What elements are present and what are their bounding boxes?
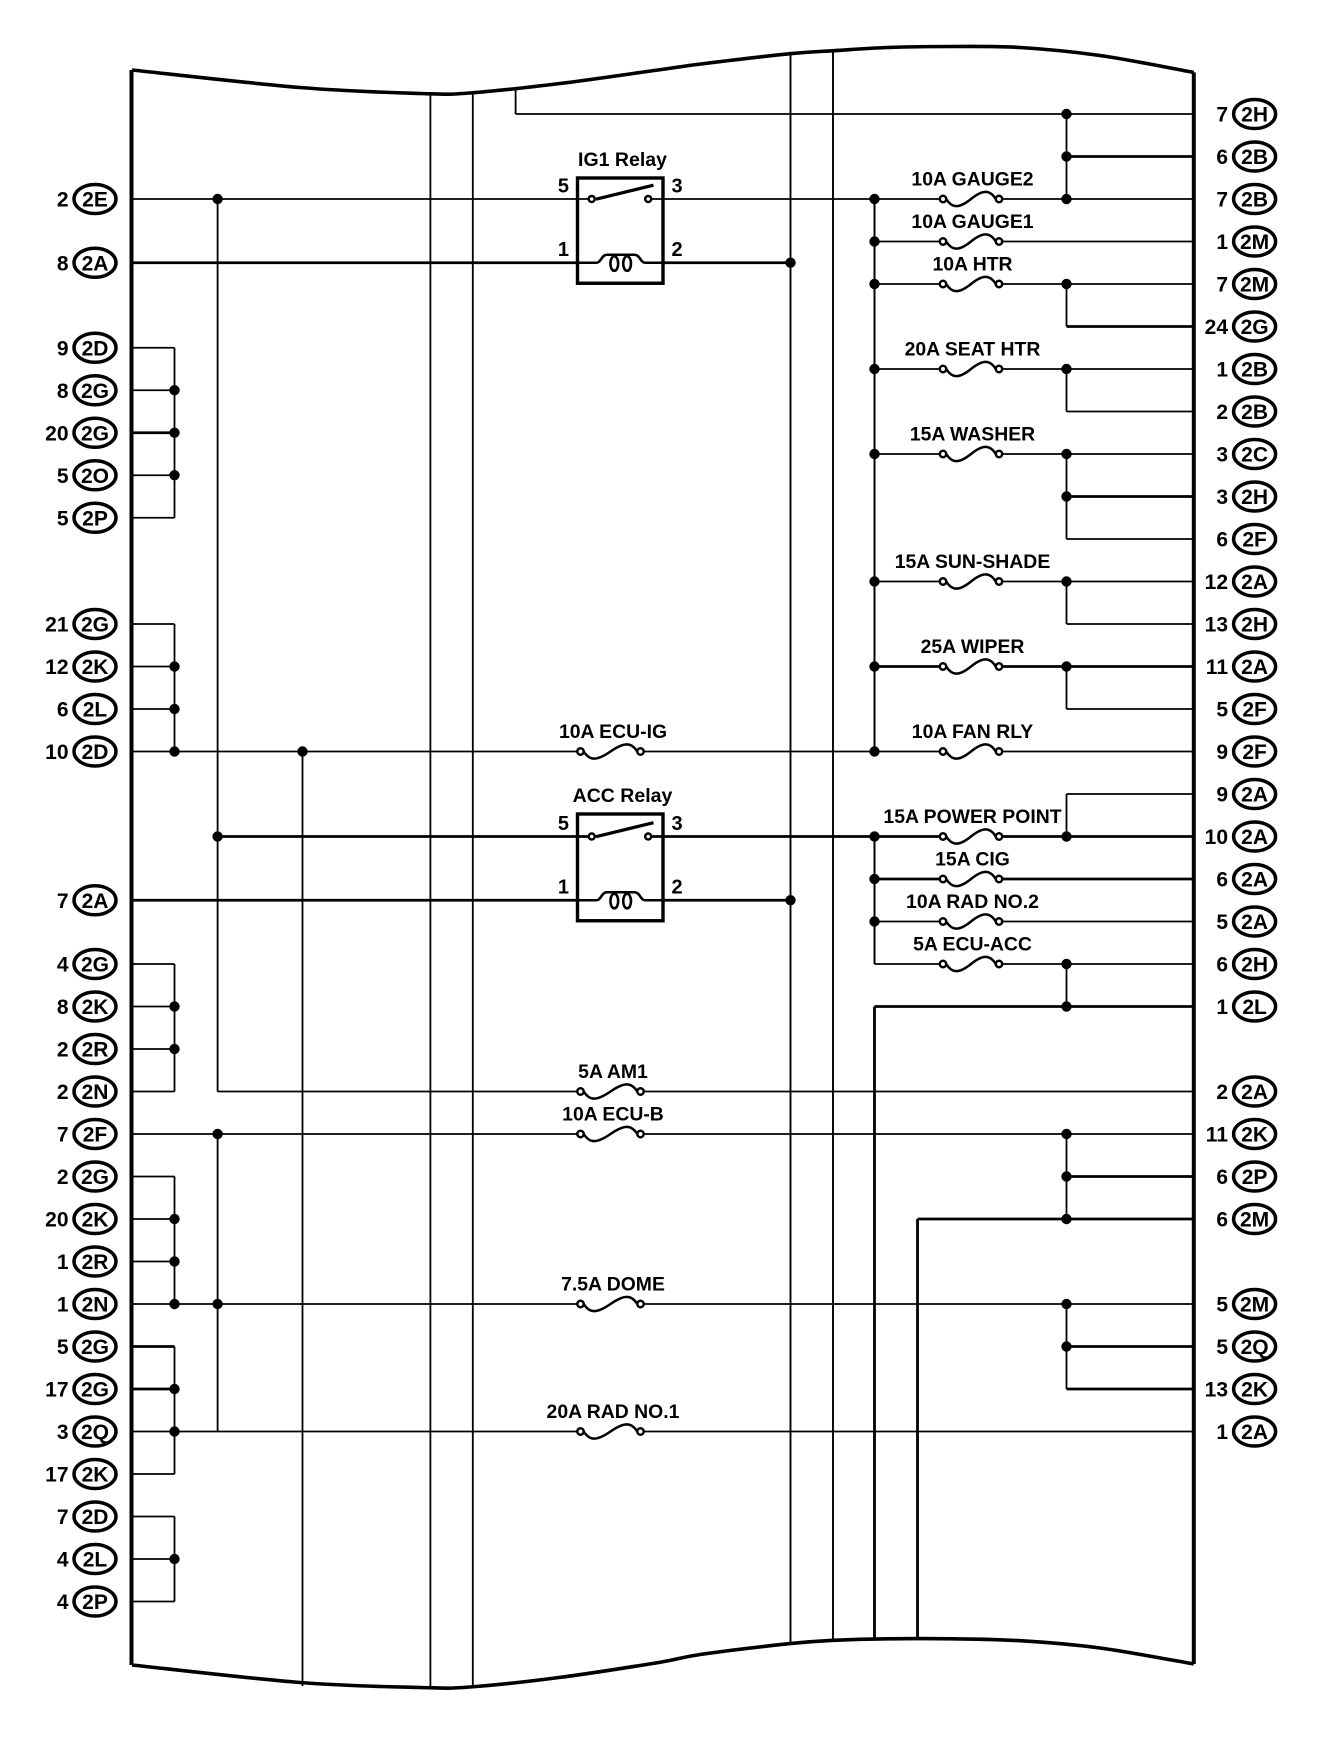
svg-text:3: 3 (1216, 444, 1228, 467)
svg-text:7: 7 (1216, 274, 1228, 297)
svg-text:1: 1 (1216, 359, 1228, 382)
stub 20(2K) (132, 1218, 175, 1220)
branch vertical 5(2M)-5(2Q)-13(2K) (1066, 1304, 1068, 1389)
connector 5(2P) L (57, 503, 116, 532)
svg-text:7: 7 (1216, 104, 1228, 127)
svg-text:6: 6 (1216, 1209, 1228, 1232)
connector 13(2K) R (1205, 1375, 1276, 1404)
svg-text:7: 7 (57, 1124, 69, 1147)
connector 21(2G) L (45, 610, 116, 639)
junction dot 6(2H) row junction (1061, 959, 1071, 969)
svg-text:2G: 2G (81, 614, 109, 637)
junction dot IG1 coil output junction (785, 258, 795, 268)
svg-text:5: 5 (57, 465, 69, 488)
svg-text:5: 5 (558, 176, 569, 198)
wire row 6(2F) (1067, 538, 1194, 540)
connector 9(2F) R (1216, 737, 1275, 766)
junction dot FAN RLY feed junction (869, 746, 879, 756)
junction dot 11(2A) row junction (1061, 661, 1071, 671)
svg-text:2L: 2L (83, 699, 108, 722)
connector 6(2L) L (57, 695, 116, 724)
svg-text:2H: 2H (1241, 614, 1268, 637)
top torn-edge wavy border (132, 46, 1194, 94)
fuse 25A WIPER (921, 636, 1025, 674)
svg-text:10A FAN RLY: 10A FAN RLY (912, 721, 1033, 743)
svg-text:8: 8 (57, 252, 69, 275)
junction dot 3(2C) row junction (1061, 449, 1071, 459)
connector 5(2Q) R (1216, 1332, 1275, 1361)
branch vertical 12(2A)-13(2H) (1066, 582, 1068, 625)
svg-text:2K: 2K (82, 996, 109, 1019)
svg-text:2L: 2L (83, 1549, 108, 1572)
junction dot 2(2R) bracket junction (169, 1044, 179, 1054)
wire row ECU-ACC fuse to 6(2H) (875, 963, 940, 965)
svg-text:17: 17 (45, 1379, 68, 1402)
svg-text:2D: 2D (82, 1506, 109, 1529)
svg-text:2G: 2G (81, 1336, 109, 1359)
connector 7(2F) L (57, 1120, 116, 1149)
junction dot 20(2K) bracket junction (169, 1214, 179, 1224)
svg-text:2B: 2B (1241, 401, 1268, 424)
svg-text:2O: 2O (81, 465, 109, 488)
svg-text:2Q: 2Q (81, 1421, 109, 1444)
junction dot SUN-SHADE feed junction (869, 576, 879, 586)
svg-text:17: 17 (45, 1464, 68, 1487)
connector 12(2A) R (1205, 567, 1276, 596)
svg-text:2G: 2G (81, 954, 109, 977)
bracket group 2D/2G/2G/2O/2P vertical (174, 348, 176, 518)
junction dot WASHER feed junction (869, 449, 879, 459)
stub 4(2P) (132, 1601, 175, 1603)
wire row 13(2K) heavy (1067, 1388, 1194, 1391)
junction dot 6(2M) row junction (1061, 1214, 1071, 1224)
junction dot 5(2Q) row junction (1061, 1341, 1071, 1351)
connector 6(2H) R (1216, 950, 1275, 979)
junction dot 8(2G) bracket junction (169, 385, 179, 395)
connector 13(2H) R (1205, 610, 1276, 639)
wire FAN RLY fuse output to 9(2F) (1002, 751, 1194, 753)
bracket group 2G/2K/2L/2D vertical (174, 624, 176, 752)
connector 20(2K) L (45, 1205, 116, 1234)
connector 6(2B) R (1216, 142, 1275, 171)
svg-text:2: 2 (57, 1039, 69, 1062)
junction dot 12(2K) bracket junction (169, 661, 179, 671)
IG1 fuse supply bus vertical (874, 199, 876, 752)
svg-text:2K: 2K (82, 1464, 109, 1487)
connector 7(2D) L (57, 1502, 116, 1531)
connector 7(2B) R (1216, 185, 1275, 214)
stub 9(2D) (132, 347, 175, 349)
stub 4(2L) (132, 1558, 175, 1560)
connector 2(2E) L (57, 185, 116, 214)
stub 21(2G) (132, 623, 175, 625)
connector 11(2A) R (1206, 652, 1276, 681)
junction dot 6(2P) row junction (1061, 1171, 1071, 1181)
stub 1(2R) (132, 1261, 175, 1263)
svg-text:9: 9 (1216, 741, 1228, 764)
junction dot IG1 bus top junction (869, 194, 879, 204)
svg-text:5: 5 (1216, 911, 1228, 934)
svg-text:10A ECU-B: 10A ECU-B (562, 1104, 664, 1126)
bracket group 2G/2G/2Q/2K vertical (174, 1347, 176, 1475)
junction dot 20(2G) bracket junction (169, 428, 179, 438)
connector 24(2G) R (1205, 312, 1276, 341)
fuse 10A ECU-IG (559, 721, 667, 759)
svg-text:2M: 2M (1240, 231, 1269, 254)
fuse 10A HTR (932, 254, 1012, 292)
junction dot 5(2M) row junction (1061, 1299, 1071, 1309)
wire IG1 relay pin 3 to GAUGE2 fuse (651, 198, 940, 200)
stub 4(2G) (132, 963, 175, 965)
connector 2(2R) L (57, 1035, 116, 1064)
wire row 6(2M) heavy (918, 1218, 1194, 1221)
junction dot ACC relay feed junction (212, 831, 222, 841)
bracket group 2G/2K/2R/2N lower vertical (174, 1177, 176, 1305)
ACC fuse supply bus vertical (874, 837, 876, 965)
svg-text:3: 3 (672, 813, 683, 835)
connector 4(2P) L (57, 1587, 116, 1616)
connector 2(2A) R (1216, 1077, 1275, 1106)
svg-text:6: 6 (1216, 529, 1228, 552)
connector 5(2O) L (57, 461, 116, 490)
junction dot 11(2K) row junction (1061, 1129, 1071, 1139)
stub 5(2G) heavy (132, 1345, 175, 1348)
wire POWER POINT fuse output to 10(2A) heavy (1002, 835, 1194, 838)
connector 20(2G) L (45, 418, 116, 447)
svg-text:2: 2 (672, 876, 683, 898)
connector 17(2G) L (45, 1375, 116, 1404)
wire ACC relay coil pin 2 to bus junction heavy (663, 899, 791, 902)
connector 2(2G) L (57, 1162, 116, 1191)
connector 3(2H) R (1216, 482, 1275, 511)
svg-text:20: 20 (45, 422, 68, 445)
wire IG1 relay coil pin 2 to bus junction heavy (663, 261, 791, 264)
connector 2(2B) R (1216, 397, 1275, 426)
svg-text:2G: 2G (81, 380, 109, 403)
junction dot 12(2A) row junction (1061, 576, 1071, 586)
stub 7(2D) (132, 1516, 175, 1518)
wire row 10(2D) to ECU-IG fuse (132, 751, 578, 753)
svg-text:2G: 2G (81, 1379, 109, 1402)
svg-text:2N: 2N (82, 1081, 109, 1104)
svg-text:15A WASHER: 15A WASHER (910, 424, 1035, 446)
junction dot 1(2R) bracket junction (169, 1256, 179, 1266)
heavy vertical from 1(2L) row down to bottom edge (873, 1007, 876, 1640)
svg-text:10: 10 (45, 741, 68, 764)
svg-text:5A ECU-ACC: 5A ECU-ACC (913, 934, 1032, 956)
svg-text:ACC Relay: ACC Relay (573, 785, 673, 807)
bottom torn-edge wavy border (132, 1639, 1194, 1689)
vertical stub from top edge to 7(2H) row (515, 89, 517, 114)
svg-text:7: 7 (57, 1506, 69, 1529)
svg-text:7: 7 (1216, 189, 1228, 212)
wire row ACC relay pin 5 feed heavy (218, 835, 589, 838)
wire row GAUGE1 fuse to 1(2M) (875, 241, 940, 243)
bracket group 2D/2L/2P vertical (174, 1517, 176, 1602)
connector 5(2G) L (57, 1332, 116, 1361)
fuse 15A POWER POINT (883, 806, 1061, 844)
junction dot 8(2K) bracket junction (169, 1001, 179, 1011)
wire GAUGE2 fuse output to 7(2B) (1002, 198, 1194, 200)
stub 12(2K) (132, 666, 175, 668)
wire row RAD NO.2 fuse to 5(2A) (875, 921, 940, 923)
svg-text:2R: 2R (82, 1251, 109, 1274)
svg-text:2M: 2M (1240, 1294, 1269, 1317)
junction dot 1(2N) bracket junction (169, 1299, 179, 1309)
connector 4(2L) L (57, 1545, 116, 1574)
junction dot ACC coil output junction (785, 895, 795, 905)
svg-text:2F: 2F (1242, 699, 1267, 722)
svg-text:7: 7 (57, 890, 69, 913)
svg-text:2: 2 (672, 239, 683, 261)
connector 2(2N) L (57, 1077, 116, 1106)
svg-text:3: 3 (1216, 486, 1228, 509)
wire DOME fuse output to 5(2M) (644, 1303, 1194, 1305)
relay IG1 Relay (558, 149, 683, 283)
svg-text:2G: 2G (1241, 316, 1269, 339)
svg-text:11: 11 (1206, 1124, 1229, 1147)
svg-text:2K: 2K (82, 656, 109, 679)
svg-text:2A: 2A (1241, 1081, 1268, 1104)
svg-text:1: 1 (558, 876, 569, 898)
svg-text:2H: 2H (1241, 486, 1268, 509)
wire row 6(2B) heavy (1067, 155, 1194, 158)
connector 5(2A) R (1216, 907, 1275, 936)
branch vertical 3(2C)-3(2H)-6(2F) (1066, 454, 1068, 539)
junction dot WIPER feed junction (869, 661, 879, 671)
svg-text:2A: 2A (1241, 656, 1268, 679)
junction dot 1(2L) row junction (1061, 1001, 1071, 1011)
junction dot SEAT HTR feed junction (869, 364, 879, 374)
svg-text:5: 5 (1216, 1336, 1228, 1359)
branch vertical 1(2B)-2(2B) (1066, 369, 1068, 412)
svg-text:20: 20 (45, 1209, 68, 1232)
svg-text:2A: 2A (1241, 911, 1268, 934)
stub 5(2O) (132, 474, 175, 476)
svg-text:15A POWER POINT: 15A POWER POINT (883, 806, 1061, 828)
svg-text:2A: 2A (1241, 1421, 1268, 1444)
svg-text:2: 2 (1216, 401, 1228, 424)
svg-text:13: 13 (1205, 1379, 1228, 1402)
junction dot DOME row junction (212, 1299, 222, 1309)
junction dot 1(2B) row junction (1061, 364, 1071, 374)
connector 5(2M) R (1216, 1290, 1275, 1319)
svg-text:2Q: 2Q (1241, 1336, 1269, 1359)
svg-text:2P: 2P (82, 1591, 108, 1614)
fuse 15A SUN-SHADE (895, 551, 1051, 589)
svg-text:1: 1 (57, 1294, 69, 1317)
vertical bus wire from 2E junction down to AM1 row (217, 199, 219, 1092)
svg-text:8: 8 (57, 380, 69, 403)
fuse 10A RAD NO.2 (906, 891, 1039, 929)
wire row 7(2F) to ECU-B fuse (132, 1133, 578, 1135)
wire ECU-B fuse output to 11(2K) (644, 1133, 1194, 1135)
wire row 7(2A) to ACC relay coil pin 1 heavy (132, 899, 578, 902)
connector 9(2A) R (1216, 780, 1275, 809)
svg-text:2R: 2R (82, 1039, 109, 1062)
svg-text:2N: 2N (82, 1294, 109, 1317)
svg-text:2E: 2E (82, 189, 108, 212)
wire row 2(2B) (1067, 411, 1194, 413)
stub 20(2G) heavy (132, 431, 175, 434)
stub 2(2N) (132, 1091, 175, 1093)
left border line (130, 70, 134, 1665)
wire row 8(2A) to IG1 relay coil pin 1 heavy (132, 261, 578, 264)
connector 6(2A) R (1216, 865, 1275, 894)
svg-text:10A GAUGE2: 10A GAUGE2 (911, 169, 1033, 191)
svg-text:12: 12 (45, 656, 68, 679)
fuse 15A CIG (935, 849, 1010, 887)
wire row SUN-SHADE fuse to 12(2A) (875, 581, 940, 583)
svg-text:8: 8 (57, 996, 69, 1019)
fuse 10A FAN RLY (912, 721, 1033, 759)
svg-text:7.5A DOME: 7.5A DOME (561, 1274, 665, 1296)
svg-text:5: 5 (57, 507, 69, 530)
svg-text:2F: 2F (1242, 529, 1267, 552)
svg-text:2M: 2M (1240, 274, 1269, 297)
svg-text:2L: 2L (1242, 996, 1267, 1019)
svg-text:2K: 2K (1241, 1124, 1268, 1147)
svg-text:2A: 2A (1241, 826, 1268, 849)
branch vertical 7(2H)-6(2B)-7(2B) (1066, 114, 1068, 199)
connector 1(2M) R (1216, 227, 1275, 256)
fuse 5A ECU-ACC (913, 934, 1032, 972)
svg-text:2C: 2C (1241, 444, 1268, 467)
connector 1(2R) L (57, 1247, 116, 1276)
heavy vertical from 6(2M) row down to bottom edge (916, 1219, 919, 1639)
wire row 9(2A) (1067, 793, 1194, 795)
stub 17(2G) heavy (132, 1388, 175, 1391)
svg-text:1: 1 (558, 239, 569, 261)
svg-text:2: 2 (57, 1166, 69, 1189)
svg-text:2P: 2P (82, 507, 108, 530)
right border line (1192, 72, 1196, 1664)
connector 8(2K) L (57, 992, 116, 1021)
junction dot 10(2A) row junction (1061, 831, 1071, 841)
svg-text:13: 13 (1205, 614, 1228, 637)
svg-text:10A HTR: 10A HTR (932, 254, 1012, 276)
wire row SEAT HTR fuse to 1(2B) (875, 368, 940, 370)
svg-text:6: 6 (1216, 869, 1228, 892)
connector 6(2M) R (1216, 1205, 1275, 1234)
fuse 7.5A DOME (561, 1274, 665, 1312)
fuse 10A GAUGE1 (911, 211, 1033, 249)
svg-text:2A: 2A (1241, 571, 1268, 594)
svg-text:2H: 2H (1241, 104, 1268, 127)
junction dot ECU-B row junction (212, 1129, 222, 1139)
svg-text:2G: 2G (81, 1166, 109, 1189)
branch vertical 6(2H)-1(2L) (1066, 964, 1068, 1007)
svg-text:4: 4 (57, 1549, 69, 1572)
svg-text:15A SUN-SHADE: 15A SUN-SHADE (895, 551, 1051, 573)
junction dot 17(2G) bracket junction (169, 1384, 179, 1394)
wire row 1(2N) to DOME fuse (175, 1303, 578, 1305)
wire ACC relay pin 3 to POWER POINT fuse heavy (651, 835, 940, 838)
wire row CIG fuse to 6(2A) heavy (875, 878, 940, 881)
svg-text:20A RAD NO.1: 20A RAD NO.1 (547, 1401, 680, 1423)
svg-text:2B: 2B (1241, 189, 1268, 212)
svg-text:3: 3 (672, 176, 683, 198)
connector 4(2G) L (57, 950, 116, 979)
stub 17(2K) (132, 1473, 175, 1475)
svg-text:2: 2 (57, 1081, 69, 1104)
junction dot 2(2E) row junction (212, 194, 222, 204)
junction dot 7(2M) row junction (1061, 279, 1071, 289)
svg-text:2A: 2A (1241, 869, 1268, 892)
junction dot 7(2H) row junction (1061, 109, 1071, 119)
svg-text:21: 21 (45, 614, 69, 637)
connector 12(2K) L (45, 652, 116, 681)
connector 1(2B) R (1216, 355, 1275, 384)
wire row 24(2G) heavy (1067, 325, 1194, 328)
branch vertical 11(2A)-5(2F) (1066, 667, 1068, 710)
svg-text:10A RAD NO.2: 10A RAD NO.2 (906, 891, 1039, 913)
vertical pass-through bus wire B (472, 93, 474, 1687)
svg-text:5: 5 (1216, 699, 1228, 722)
svg-text:6: 6 (1216, 1166, 1228, 1189)
svg-text:1: 1 (57, 1251, 69, 1274)
connector 1(2N) L (57, 1290, 116, 1319)
svg-text:5A AM1: 5A AM1 (578, 1061, 648, 1083)
svg-text:15A CIG: 15A CIG (935, 849, 1010, 871)
connector 3(2C) R (1216, 440, 1275, 469)
svg-text:2: 2 (1216, 1081, 1228, 1104)
wire row 6(2P) heavy (1067, 1175, 1194, 1178)
wire ECU-IG fuse output to FAN RLY fuse (644, 751, 940, 753)
connector 1(2L) R (1216, 992, 1275, 1021)
junction dot RAD NO.2 feed junction (869, 916, 879, 926)
svg-text:9: 9 (57, 337, 69, 360)
svg-text:2D: 2D (82, 741, 109, 764)
branch vertical 9(2A)-10(2A) (1066, 794, 1068, 837)
fuse 5A AM1 (577, 1061, 648, 1099)
svg-text:6: 6 (1216, 954, 1228, 977)
svg-text:5: 5 (57, 1336, 69, 1359)
svg-text:6: 6 (57, 699, 69, 722)
relay ACC Relay (558, 785, 683, 921)
junction dot 7(2B) row junction (1061, 194, 1071, 204)
junction dot ACC bus top junction (869, 831, 879, 841)
junction dot 5(2O) bracket junction (169, 470, 179, 480)
vertical pass-through bus wire C (790, 54, 792, 1644)
fuse 15A WASHER (910, 424, 1035, 462)
junction dot 10(2D) bracket junction (169, 746, 179, 756)
wire RAD NO.1 fuse output to 1(2A) (644, 1431, 1194, 1433)
svg-text:9: 9 (1216, 784, 1228, 807)
vertical bus wire from ECU-IG row down to bottom edge (302, 752, 304, 1687)
connector 6(2P) R (1216, 1162, 1275, 1191)
connector 10(2A) R (1205, 822, 1276, 851)
svg-text:2B: 2B (1241, 359, 1268, 382)
junction dot 3(2Q) bracket junction (169, 1426, 179, 1436)
svg-text:2G: 2G (81, 422, 109, 445)
svg-text:2P: 2P (1242, 1166, 1268, 1189)
stub 8(2G) (132, 389, 175, 391)
stub 5(2P) (132, 517, 175, 519)
svg-text:2: 2 (57, 189, 69, 212)
svg-text:10A GAUGE1: 10A GAUGE1 (911, 211, 1033, 233)
connector 5(2F) R (1216, 695, 1275, 724)
fuse 10A ECU-B (562, 1104, 664, 1142)
svg-text:IG1 Relay: IG1 Relay (578, 149, 667, 171)
wire row 3(2H) heavy (1067, 495, 1194, 498)
wire row 7(2H) (516, 113, 1194, 115)
connector 8(2G) L (57, 376, 116, 405)
connector 8(2A) L (57, 248, 116, 277)
junction dot 6(2L) bracket junction (169, 704, 179, 714)
svg-text:5: 5 (558, 813, 569, 835)
junction dot CIG feed junction (869, 874, 879, 884)
